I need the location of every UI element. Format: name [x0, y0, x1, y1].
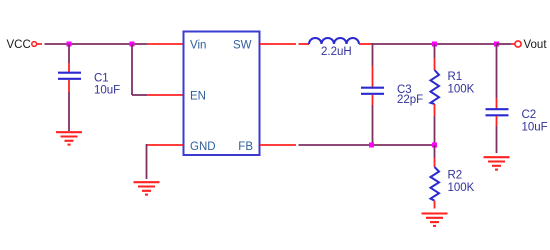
node junction C1: [67, 42, 72, 47]
pin FB stub: [260, 144, 296, 146]
wire R1 lower lead: [434, 104, 436, 145]
svg-text:2.2uH: 2.2uH: [321, 46, 352, 58]
svg-text:C1: C1: [94, 73, 109, 85]
svg-text:R1: R1: [448, 71, 463, 83]
svg-text:SW: SW: [233, 40, 252, 52]
resistor R2: [431, 167, 440, 201]
node junction R1 R2 FB: [432, 143, 437, 148]
wire C1 lower lead: [68, 80, 70, 131]
svg-text:100K: 100K: [448, 84, 475, 96]
svg-text:VCC: VCC: [7, 39, 31, 51]
wire C2 upper lead: [496, 44, 498, 109]
wire R2 upper lead: [434, 145, 436, 167]
node junction R1 top: [432, 42, 437, 47]
terminal VCC: [32, 42, 37, 47]
ground below C2: [484, 157, 510, 169]
svg-text:R2: R2: [448, 170, 463, 182]
terminal Vout: [515, 41, 521, 47]
node junction Vout C2: [494, 42, 499, 47]
inductor L1: [309, 38, 359, 44]
value label C3 22pF: [397, 84, 423, 106]
svg-text:C2: C2: [522, 109, 537, 121]
pin SW stub to inductor: [260, 43, 309, 45]
wire VCC stub: [37, 43, 42, 45]
svg-text:10uF: 10uF: [94, 85, 120, 97]
ground below GND pin: [134, 182, 160, 194]
node junction EN: [130, 42, 135, 47]
value label R2 100K: [448, 170, 475, 195]
wire GND down: [146, 144, 148, 179]
value label R1 100K: [448, 71, 475, 96]
wire output rail: [373, 43, 497, 45]
capacitor C1: [58, 73, 81, 79]
wire Vout stub: [497, 43, 515, 45]
svg-text:Vin: Vin: [190, 40, 206, 52]
ground below C1: [56, 132, 82, 144]
wire C3 upper lead: [372, 43, 374, 87]
value label C2 10uF: [522, 109, 548, 134]
wire R2 lower lead: [434, 201, 436, 209]
svg-text:Vout: Vout: [524, 39, 548, 51]
pin GND stub: [147, 144, 184, 146]
capacitor C2: [486, 109, 509, 115]
wire C3 lower lead: [372, 95, 374, 145]
wire C1 upper lead: [68, 44, 70, 72]
svg-text:EN: EN: [190, 90, 206, 102]
wire C2 lower lead: [496, 116, 498, 153]
node junction C3 FB: [369, 143, 374, 148]
pin Vin stub: [147, 43, 183, 45]
svg-text:10uF: 10uF: [522, 122, 548, 134]
wire VCC rail to Vin: [45, 43, 148, 45]
svg-text:22pF: 22pF: [397, 94, 423, 106]
wire EN branch: [132, 44, 183, 95]
op-amp U1 regulator body: [184, 32, 260, 156]
svg-text:GND: GND: [190, 141, 216, 153]
svg-text:100K: 100K: [448, 182, 475, 194]
wire R1 upper lead: [434, 44, 436, 70]
value label C1 10uF: [94, 73, 120, 97]
wire FB to divider: [299, 144, 435, 146]
capacitor C3: [361, 88, 384, 94]
ground below R2: [422, 214, 448, 226]
svg-text:FB: FB: [238, 141, 253, 153]
resistor R1: [431, 70, 440, 104]
wire inductor right lead: [359, 43, 373, 45]
